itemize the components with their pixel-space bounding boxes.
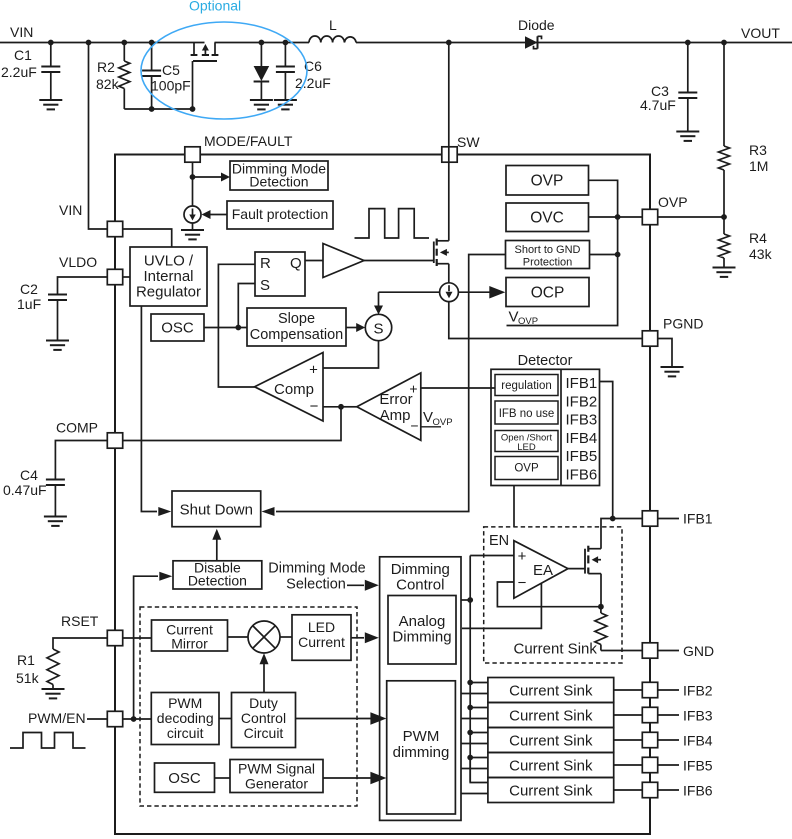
- junction MODE/FAULT internal: [190, 174, 196, 180]
- svg-text:decoding: decoding: [157, 710, 214, 726]
- wire: R2/C5 bottom bus to Q1 gate node: [124, 108, 192, 110]
- wire: dimming mode selection: [347, 584, 364, 586]
- wire: RSET pin to Current Mirror: [123, 637, 152, 639]
- transistor M2 (current sink NMOS): [584, 549, 586, 574]
- resistor R2: [123, 43, 125, 62]
- wire: OSC to PWM Signal Generator: [215, 777, 231, 779]
- capacitor C3: [687, 43, 689, 92]
- wire: detector IFB1 sense to IFB1 pin: [600, 382, 643, 519]
- wire: UVLO down to Shut Down: [141, 306, 157, 512]
- wire: GND pin stub: [658, 650, 679, 652]
- wire: EA + input to analog line: [470, 555, 514, 557]
- block Open/Short LED: [495, 431, 558, 452]
- svg-text:Selection: Selection: [286, 577, 346, 593]
- svg-text:OVP: OVP: [514, 463, 539, 475]
- block PWM decoding circuit: [151, 693, 219, 745]
- arrow into Shut Down (left): [158, 507, 171, 516]
- svg-text:R: R: [260, 255, 271, 272]
- wire: OVP output to V_OVP net: [507, 180, 618, 325]
- wire: PWM/EN to Disable Detection: [134, 576, 158, 719]
- svg-text:1uF: 1uF: [17, 296, 41, 312]
- svg-text:Control: Control: [241, 710, 286, 726]
- IC boundary box: [115, 155, 650, 835]
- block IFB no use: [495, 401, 558, 424]
- svg-text:1M: 1M: [749, 158, 768, 174]
- block Short to GND Protection: [506, 241, 590, 269]
- wire: multiplier to LED Current: [280, 636, 292, 638]
- wire: analog bus tap row 2: [470, 707, 488, 709]
- svg-text:S: S: [373, 321, 383, 338]
- junction analog bus row 3: [467, 730, 473, 736]
- svg-text:+: +: [518, 548, 527, 565]
- waveform: PWM/EN input square wave: [10, 733, 86, 749]
- arrow into Shut Down (right): [262, 507, 275, 516]
- ground (C2): [46, 340, 69, 342]
- svg-text:OVC: OVC: [530, 210, 564, 227]
- multiplier (X circle): [248, 621, 280, 653]
- block Disable Detection: [173, 561, 262, 589]
- wire: PWM Signal Generator to PWM dimming: [323, 777, 371, 779]
- svg-text:IFB5: IFB5: [566, 448, 598, 465]
- wire: Comp output up to R input: [218, 264, 255, 387]
- block Fault protection: [227, 201, 333, 229]
- svg-text:R4: R4: [749, 230, 767, 246]
- wire: analog dimming vertical bus: [469, 556, 471, 783]
- svg-text:Current Sink: Current Sink: [514, 641, 598, 658]
- pin MODE/FAULT: [185, 147, 200, 162]
- wire: IFB5 pin stub: [658, 764, 679, 766]
- pin IFB1: [642, 511, 657, 526]
- junction on rail at C6: [283, 40, 289, 46]
- svg-text:PWM: PWM: [168, 695, 202, 711]
- ground (C1): [39, 99, 62, 101]
- ground (C3): [676, 131, 699, 133]
- op-amp Error Amp: [357, 373, 421, 441]
- inductor L: [309, 36, 356, 43]
- wire: PWM/EN pin stub (external): [87, 718, 107, 720]
- pin SW: [442, 147, 457, 162]
- block Current Sink row 4 (IFB5): [488, 753, 614, 778]
- svg-text:OVP: OVP: [518, 316, 538, 327]
- svg-text:SW: SW: [457, 134, 480, 150]
- wire: IFB4 pin stub: [658, 739, 679, 741]
- svg-text:Control: Control: [396, 577, 444, 594]
- block PWM dimming: [387, 681, 456, 814]
- svg-text:4.7uF: 4.7uF: [640, 97, 676, 113]
- svg-text:VIN: VIN: [59, 202, 82, 218]
- junction OSC output: [235, 325, 241, 331]
- svg-text:Current Sink: Current Sink: [509, 782, 593, 799]
- svg-text:Detection: Detection: [188, 573, 247, 589]
- svg-text:Mirror: Mirror: [171, 636, 208, 652]
- wire: fault protection to current source: [210, 214, 227, 216]
- wire: to Dimming Mode Detection: [193, 176, 223, 178]
- diode D1 (schottky rectifier): [525, 36, 538, 48]
- resistor R1: [47, 649, 59, 685]
- wire: COMP pin compensation net: [123, 407, 341, 441]
- wire: M1 source node down/right to PGND pin: [449, 302, 643, 339]
- svg-text:PWM: PWM: [403, 728, 440, 745]
- block Current Mirror: [152, 620, 228, 651]
- wire: PWM drive row 4: [461, 768, 488, 770]
- svg-text:IFB6: IFB6: [566, 467, 598, 484]
- svg-text:Current Sink: Current Sink: [509, 732, 593, 749]
- arrow into Dimming Control (selection): [365, 580, 379, 591]
- wire: VLDO pin to UVLO: [123, 276, 130, 278]
- wire: analog bus tap row 4: [470, 757, 488, 759]
- svg-text:IFB3: IFB3: [683, 708, 713, 724]
- junction on VIN rail at R2: [121, 40, 127, 46]
- block UVLO / Internal Regulator: [130, 247, 207, 306]
- wire: Error Amp output to junction: [341, 406, 357, 408]
- svg-text:PGND: PGND: [663, 316, 703, 332]
- arrow into summing node top: [374, 306, 383, 315]
- svg-text:Generator: Generator: [245, 776, 308, 792]
- junction C5 bottom: [149, 106, 155, 112]
- wire: top rail from L to right edge / VOUT: [356, 42, 792, 44]
- svg-text:IFB2: IFB2: [566, 394, 598, 411]
- block OSC (PWM): [155, 763, 215, 792]
- block OCP: [506, 278, 589, 307]
- svg-text:EA: EA: [533, 562, 553, 579]
- block OVP small: [495, 457, 558, 480]
- junction on VIN rail at C1: [48, 40, 54, 46]
- junction analog output: [467, 597, 473, 603]
- svg-text:IFB3: IFB3: [566, 412, 598, 429]
- svg-text:COMP: COMP: [56, 420, 98, 436]
- wire: Comp - input to COMP net: [323, 406, 341, 408]
- svg-text:V: V: [509, 309, 519, 326]
- wire: summing node to Comp + input: [323, 341, 379, 368]
- current source I1 (fault pull-down): [184, 206, 201, 223]
- wire: LED Current to Dimming Control: [351, 637, 364, 639]
- wire: Duty Control to PWM dimming: [296, 718, 372, 720]
- capacitor C2: [48, 294, 67, 296]
- resistor R3: [723, 43, 725, 147]
- svg-text:OCP: OCP: [531, 285, 565, 302]
- svg-text:VOUT: VOUT: [741, 25, 780, 41]
- svg-text:Slope: Slope: [278, 311, 315, 327]
- arrow into Dimming Control (LED current): [365, 632, 379, 643]
- block OVP: [506, 166, 589, 196]
- wire: analog bus tap row 1: [470, 682, 488, 684]
- block Detector outer: [491, 369, 600, 485]
- svg-text:C1: C1: [14, 47, 32, 63]
- svg-text:OVP: OVP: [658, 194, 688, 210]
- svg-text:Detector: Detector: [518, 353, 573, 369]
- arrow into OCP: [489, 286, 505, 299]
- svg-text:82k: 82k: [96, 76, 120, 92]
- svg-text:LED: LED: [308, 619, 335, 635]
- svg-text:PWM/EN: PWM/EN: [28, 710, 86, 726]
- arrow into Disable Detection: [159, 572, 172, 581]
- capacitor C6: [284, 43, 286, 66]
- svg-text:Dimming Mode: Dimming Mode: [268, 561, 366, 577]
- arrow into PWM dimming (duty): [370, 712, 386, 725]
- wire: IFB1 pin stub: [658, 518, 679, 520]
- junction gate node: [190, 106, 196, 112]
- block Analog Dimming: [388, 596, 456, 665]
- arrow into summing node: [356, 323, 365, 332]
- wire: Current Sink row 1 to IFB2 pin: [614, 689, 643, 691]
- svg-text:Amp: Amp: [380, 407, 411, 424]
- svg-text:regulation: regulation: [501, 380, 552, 392]
- svg-text:IFB no use: IFB no use: [499, 408, 555, 420]
- wire: PWM drive row 5: [461, 793, 488, 795]
- svg-text:Protection: Protection: [523, 257, 573, 269]
- pin VLDO: [107, 269, 122, 284]
- svg-text:GND: GND: [683, 643, 714, 659]
- wire: VIN pin to UVLO: [123, 229, 172, 247]
- svg-text:Detection: Detection: [249, 174, 308, 190]
- wire: sense resistor to GND pin: [601, 650, 642, 652]
- transistor M1 (internal power NMOS): [433, 242, 435, 264]
- block OSC (main): [151, 314, 204, 341]
- svg-text:L: L: [329, 17, 337, 33]
- block Current Sink row 3 (IFB4): [488, 728, 614, 753]
- junction on VOUT rail at C3: [685, 40, 691, 46]
- ground (clamp diode): [250, 99, 273, 101]
- svg-text:S: S: [260, 277, 270, 294]
- box Current Sink (dashed): [484, 527, 622, 663]
- pin PWM/EN: [107, 711, 122, 726]
- svg-text:Error: Error: [379, 391, 412, 408]
- svg-text:MODE/FAULT: MODE/FAULT: [204, 133, 293, 149]
- arrow into multiplier bottom: [260, 653, 269, 664]
- svg-text:R1: R1: [17, 652, 35, 668]
- block Duty Control Circuit: [232, 693, 296, 748]
- wire: EA output to M2 gate: [568, 568, 585, 570]
- svg-text:R3: R3: [749, 142, 767, 158]
- pin IFB4: [642, 732, 657, 747]
- svg-text:RSET: RSET: [61, 613, 99, 629]
- wire: Current Sink row 3 to IFB4 pin: [614, 739, 643, 741]
- junction Comp-/ErrorAmp/COMP pin: [338, 404, 344, 410]
- wire: VIN rail branch down to VIN pin: [89, 43, 108, 230]
- wire: current mirror to multiplier: [228, 636, 249, 638]
- ground (C4): [44, 516, 67, 518]
- svg-text:Analog: Analog: [399, 613, 446, 630]
- block Current Sink row 5 (IFB6): [488, 778, 614, 803]
- svg-text:circuit: circuit: [167, 725, 204, 741]
- junction Short-to-GND/V_OVP vertical: [615, 252, 621, 258]
- svg-text:2.2uF: 2.2uF: [1, 64, 37, 80]
- svg-text:OSC: OSC: [168, 770, 201, 787]
- wire: current sense down into summing node: [378, 292, 380, 307]
- junction IFB1 node: [610, 516, 616, 522]
- svg-text:IFB4: IFB4: [566, 430, 598, 447]
- svg-text:Regulator: Regulator: [136, 284, 201, 301]
- junction on VIN rail at VIN-pin branch: [86, 40, 92, 46]
- svg-text:−: −: [410, 418, 418, 434]
- wire: RSET pin to R1: [53, 638, 107, 649]
- svg-text:Shut Down: Shut Down: [180, 502, 253, 519]
- svg-text:Current: Current: [298, 634, 345, 650]
- svg-text:OSC: OSC: [161, 320, 194, 337]
- transistor Q1 (optional external PMOS): [193, 43, 195, 56]
- svg-text:Dimming: Dimming: [391, 561, 450, 578]
- svg-text:Fault protection: Fault protection: [232, 206, 329, 222]
- svg-text:Compensation: Compensation: [250, 327, 344, 343]
- svg-text:OVP: OVP: [531, 173, 564, 190]
- wire: analog bus elbow into row 5: [470, 758, 488, 783]
- svg-text:Duty: Duty: [249, 695, 278, 711]
- ground (C6): [274, 99, 297, 101]
- svg-text:0.47uF: 0.47uF: [3, 482, 47, 498]
- block regulation: [495, 375, 558, 396]
- svg-text:Current Sink: Current Sink: [509, 757, 593, 774]
- wire: M2 source down: [600, 574, 602, 607]
- wire: detector EN output down: [513, 486, 515, 527]
- ground (fault current source): [192, 223, 194, 230]
- wire: MODE/FAULT pin into IC: [192, 162, 194, 206]
- svg-text:+: +: [309, 362, 318, 379]
- wire: sense output toward OCP: [458, 291, 489, 293]
- junction on rail at SW branch: [446, 40, 452, 46]
- arrow into current source: [202, 210, 211, 219]
- block Dimming Control: [380, 557, 461, 821]
- wire: COMP pin to C4: [55, 441, 107, 479]
- wire: PWM/EN pin into PWM decoding: [123, 718, 152, 720]
- wire: PWM drive row 2: [461, 718, 488, 720]
- svg-text:43k: 43k: [749, 246, 773, 262]
- svg-text:R2: R2: [97, 59, 115, 75]
- buffer U4 (gate driver triangle): [323, 244, 364, 278]
- capacitor C1: [50, 43, 52, 66]
- wire: VIN top rail (left of Q1): [0, 42, 205, 44]
- wire: Current Sink row 2 to IFB3 pin: [614, 714, 643, 716]
- ground (R4): [713, 267, 736, 269]
- wire: slope comp to summing node: [346, 327, 358, 329]
- capacitor C4: [46, 479, 65, 481]
- wire: OVP pin to divider: [658, 216, 724, 218]
- wire: analog dimming into EA bottom: [462, 583, 541, 628]
- svg-text:Optional: Optional: [189, 0, 241, 14]
- junction analog bus row 4: [467, 755, 473, 761]
- arrow into Shut Down bottom: [212, 529, 221, 540]
- wire: PWM drive row 3: [461, 743, 488, 745]
- junction on VOUT rail at R3: [721, 40, 727, 46]
- wire: PWM drive row 1: [461, 693, 488, 695]
- junction analog bus row 2: [467, 705, 473, 711]
- svg-text:−: −: [518, 575, 527, 592]
- svg-text:dimming: dimming: [393, 744, 450, 761]
- svg-text:51k: 51k: [16, 670, 40, 686]
- wire: M1 source to current sense: [448, 264, 450, 284]
- junction PWM/EN internal: [131, 716, 137, 722]
- op-amp Comp: [255, 353, 323, 422]
- pin RSET: [107, 630, 122, 645]
- resistor Rcs (sink sense): [600, 607, 602, 613]
- junction OVC/V_OVP vertical: [615, 214, 621, 220]
- arrow into PWM dimming (pwm): [370, 772, 386, 785]
- junction analog bus row 1: [467, 680, 473, 686]
- svg-text:EN: EN: [489, 533, 509, 549]
- wire: Short-to-GND output: [590, 254, 618, 256]
- summing node S circle: [365, 314, 391, 340]
- block Slope Compensation: [247, 308, 346, 346]
- wire: branch up to S input of latch: [238, 284, 255, 328]
- svg-text:Short to GND: Short to GND: [514, 244, 580, 256]
- wire: PGND pin to ground: [658, 339, 672, 367]
- svg-text:LED: LED: [517, 442, 536, 453]
- capacitor C5: [151, 43, 153, 70]
- wire: analog bus tap row 3: [470, 732, 488, 734]
- pin IFB3: [642, 707, 657, 722]
- pin IFB2: [642, 682, 657, 697]
- pin OVP: [642, 209, 657, 224]
- svg-text:Current Sink: Current Sink: [509, 707, 593, 724]
- wire: top rail from Q1 to inductor L: [215, 42, 310, 44]
- wire: IFB2 pin stub: [658, 689, 679, 691]
- ground (R1): [42, 688, 65, 690]
- svg-text:C5: C5: [162, 62, 180, 78]
- svg-text:IFB1: IFB1: [566, 375, 598, 392]
- wire: Error Amp + to regulation: [421, 387, 495, 389]
- ellipse marking optional network: [141, 22, 307, 119]
- wire: Current Sink row 4 to IFB5 pin: [614, 764, 643, 766]
- wire: Q output to gate buffer: [305, 260, 323, 262]
- wire: EA - feedback loop: [497, 582, 601, 607]
- wire: PWM decoding to Duty Control: [219, 718, 232, 720]
- block OVC: [506, 203, 589, 232]
- block Current Sink row 1 (IFB2): [488, 678, 614, 703]
- svg-text:IFB6: IFB6: [683, 783, 713, 799]
- junction M2 source / feedback: [598, 604, 604, 610]
- junction on rail at clamp diode: [259, 40, 265, 46]
- wire: SW branch from rail through SW pin to M1 drain: [448, 43, 450, 241]
- wire: sense to slope-comp branch: [379, 291, 440, 293]
- latch RS box: [255, 252, 305, 296]
- block Shut Down: [172, 491, 261, 527]
- pin GND: [642, 643, 657, 658]
- svg-text:UVLO /: UVLO /: [144, 253, 194, 270]
- svg-text:PWM Signal: PWM Signal: [238, 761, 315, 777]
- pin IFB5: [642, 757, 657, 772]
- junction at OVP divider: [721, 214, 727, 220]
- block Current Sink row 2 (IFB3): [488, 703, 614, 728]
- pin COMP: [107, 433, 122, 448]
- svg-text:Diode: Diode: [518, 17, 555, 33]
- wire: IFB6 pin stub: [658, 789, 679, 791]
- waveform: SW node square wave: [355, 209, 430, 238]
- wire: Q1 gate down to MODE/FAULT node: [192, 61, 194, 109]
- svg-text:VIN: VIN: [10, 24, 33, 40]
- svg-text:Current Sink: Current Sink: [509, 682, 593, 699]
- wire: Disable Detection to Shut Down: [216, 538, 218, 561]
- wire: OVC output to OVP pin: [589, 216, 643, 218]
- svg-text:C4: C4: [20, 467, 38, 483]
- wire: Short-to-GND to Shut Down: [276, 255, 506, 512]
- svg-text:100pF: 100pF: [151, 78, 191, 94]
- op-amp EA: [514, 541, 568, 599]
- svg-text:VLDO: VLDO: [59, 254, 97, 270]
- svg-text:IFB1: IFB1: [683, 511, 713, 527]
- svg-text:Q: Q: [290, 255, 302, 272]
- svg-text:Dimming: Dimming: [392, 629, 451, 646]
- block Dimming Mode Detection: [230, 161, 328, 190]
- block PWM Signal Generator: [230, 760, 323, 793]
- wire: IFB3 pin stub: [658, 714, 679, 716]
- svg-text:Comp: Comp: [274, 381, 314, 398]
- wire: OSC to Slope Compensation: [204, 327, 247, 329]
- svg-text:+: +: [409, 381, 417, 397]
- pin IFB6: [642, 782, 657, 797]
- divider in Detector: [560, 369, 562, 485]
- wire: IFB1 node to M2 drain: [601, 519, 613, 549]
- wire: VLDO pin to C2: [58, 277, 108, 294]
- wire: Dimming Control analog output: [461, 599, 470, 601]
